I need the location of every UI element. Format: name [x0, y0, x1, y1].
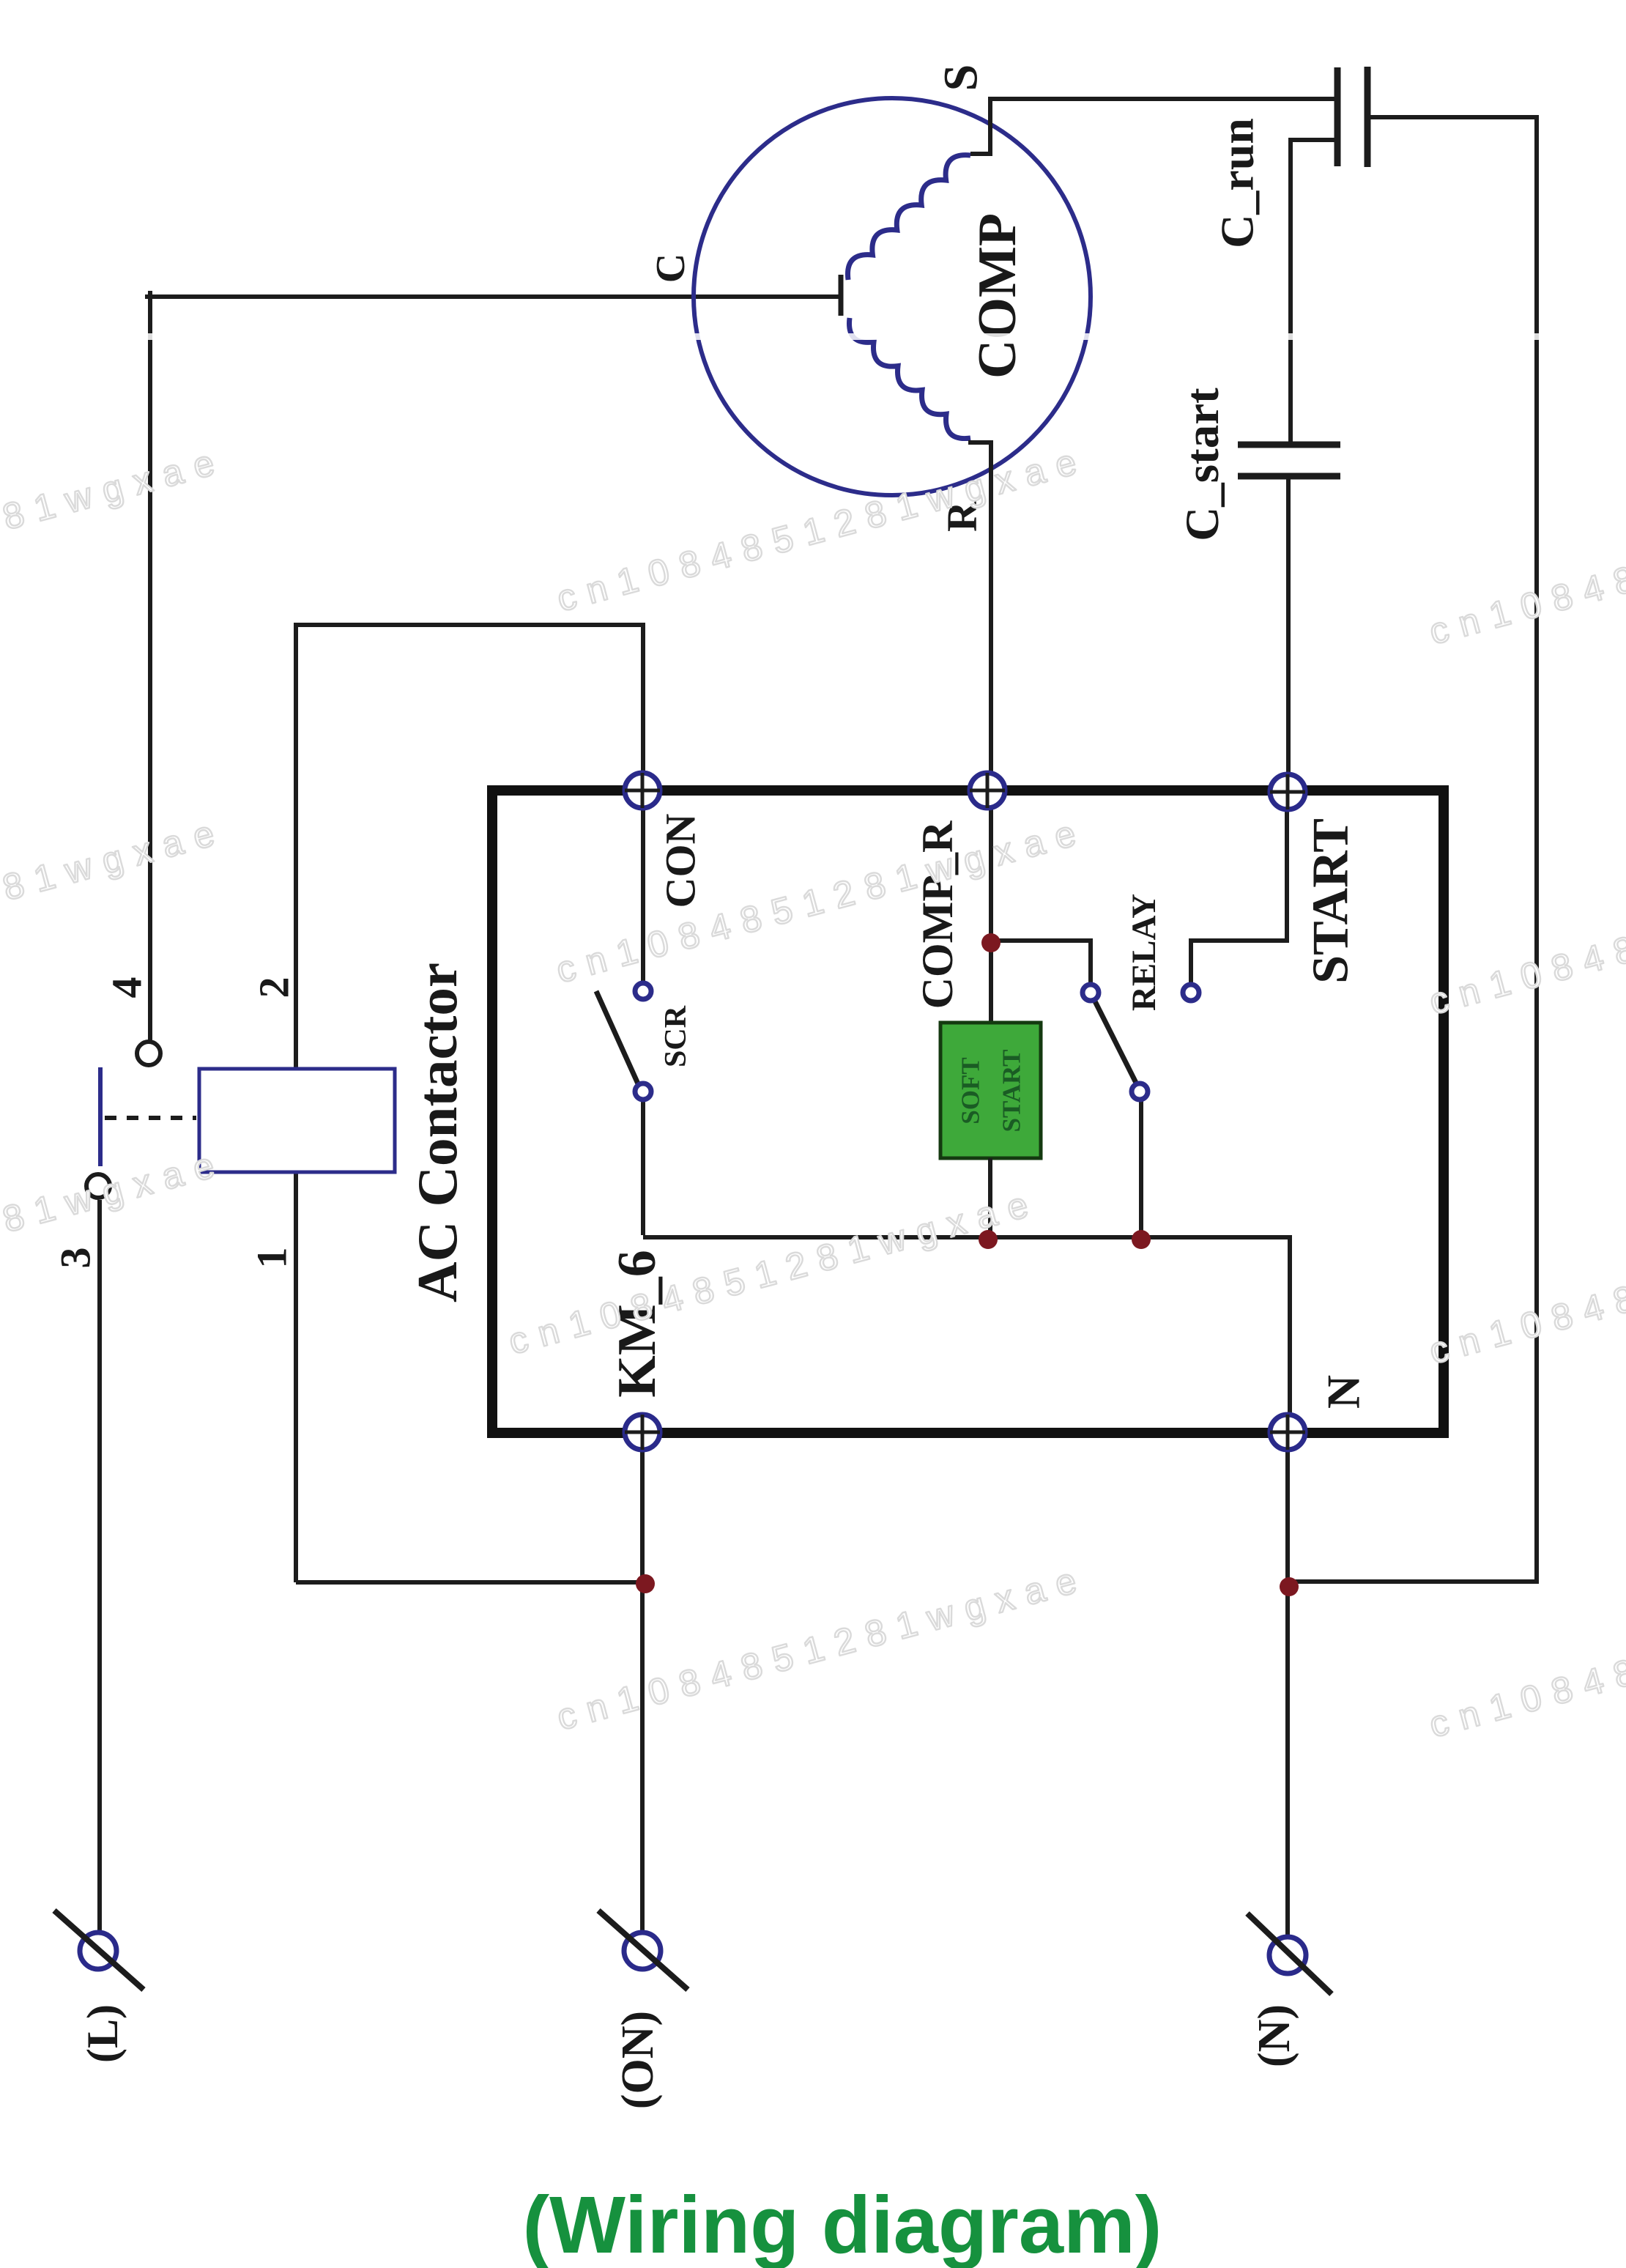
junction dot relay to bus — [1132, 1230, 1151, 1249]
svg-text:C_run: C_run — [1211, 118, 1263, 248]
scan artifact white band — [0, 333, 1626, 340]
terminal (N) circle and slash — [1247, 1913, 1332, 1994]
capacitor C_start bottom plate — [1238, 473, 1340, 480]
svg-text:START: START — [1303, 818, 1359, 984]
AC contactor coil box — [199, 1069, 395, 1172]
junction dot soft start to bus — [979, 1230, 998, 1249]
SCR lower contact — [635, 1083, 651, 1100]
wire COMP_R terminal down to soft start module — [989, 798, 993, 1023]
svg-text:C_start: C_start — [1176, 388, 1229, 541]
wire soft start module to bus — [988, 1158, 992, 1237]
wire relay lower contact to bus — [1139, 1100, 1143, 1237]
RELAY lower contact — [1132, 1083, 1148, 1100]
svg-text:1: 1 — [248, 1248, 296, 1269]
svg-text:S: S — [935, 64, 988, 92]
terminal (L) circle and slash — [54, 1911, 144, 1990]
svg-text:cn1084851281wgxae: cn1084851281wgxae — [1425, 471, 1626, 653]
branch from COMP_R node to relay left contact — [991, 941, 1091, 985]
svg-text:cn1084851281wgxae: cn1084851281wgxae — [1425, 1190, 1626, 1372]
contactor fixed contact 4 — [137, 1042, 160, 1065]
svg-text:cn1084851281wgxae: cn1084851281wgxae — [0, 809, 230, 991]
svg-text:(Wiring diagram): (Wiring diagram) — [523, 2180, 1162, 2268]
terminal ring COMP_R — [970, 773, 1005, 808]
svg-text:cn1084851281wgxae: cn1084851281wgxae — [552, 809, 1091, 991]
terminal (ON) circle and slash — [598, 1911, 688, 1990]
svg-text:(L): (L) — [78, 2004, 127, 2063]
wire CON terminal down to SCR — [641, 798, 645, 982]
wire SCR to inner bottom bus — [641, 1100, 645, 1235]
node C wire top horizontal — [145, 294, 841, 299]
RELAY switch blade — [1091, 993, 1140, 1090]
soft start module box — [940, 1023, 1041, 1158]
terminal R bracket and wire down to COMP_R — [968, 442, 991, 785]
svg-text:SOFT: SOFT — [957, 1057, 985, 1124]
svg-text:START: START — [998, 1050, 1026, 1133]
wire contact 3 down to (L) — [97, 1200, 102, 1932]
svg-text:cn1084851281wgxae: cn1084851281wgxae — [552, 438, 1091, 620]
RELAY left contact — [1083, 985, 1099, 1001]
wire C_run right plate to right rail — [1367, 117, 1537, 1582]
watermark tiles — [0, 438, 1626, 1746]
wire C_run left plate to C_start — [1291, 140, 1337, 445]
svg-text:4: 4 — [103, 977, 151, 998]
terminal ring START — [1270, 774, 1305, 809]
svg-text:cn1084851281wgxae: cn1084851281wgxae — [1425, 841, 1626, 1023]
svg-text:cn1084851281wgxae: cn1084851281wgxae — [504, 1181, 1043, 1363]
svg-text:N: N — [1318, 1375, 1370, 1409]
junction dot at COMP_R node — [981, 933, 1001, 952]
svg-text:COMP: COMP — [968, 213, 1028, 379]
svg-text:(N): (N) — [1250, 2004, 1299, 2067]
svg-text:AC Contactor: AC Contactor — [406, 963, 469, 1302]
contactor linkage dashed line — [105, 1116, 196, 1120]
wire C_start to START terminal — [1286, 476, 1291, 785]
capacitor C_start top plate — [1238, 442, 1340, 448]
soft starter box — [492, 790, 1444, 1433]
contactor moving blade — [98, 1067, 103, 1166]
wire N terminal down to (N) — [1285, 1439, 1290, 1936]
inner bottom bus and drop to N terminal — [643, 1237, 1290, 1426]
svg-text:3: 3 — [52, 1248, 100, 1269]
junction dot N line — [1280, 1577, 1299, 1596]
terminal ring KM_6 — [625, 1415, 660, 1450]
wire KM_6 terminal down to (ON) — [640, 1439, 645, 1932]
SCR switch blade — [596, 991, 640, 1089]
start winding (lower coil) — [849, 318, 970, 439]
svg-text:(ON): (ON) — [613, 2011, 663, 2109]
svg-text:cn1084851281wgxae: cn1084851281wgxae — [0, 1141, 230, 1323]
svg-text:CON: CON — [657, 813, 705, 908]
svg-text:cn1084851281wgxae: cn1084851281wgxae — [0, 439, 230, 620]
compressor motor circle COMP — [694, 98, 1091, 495]
svg-text:C: C — [648, 253, 694, 283]
RELAY right contact — [1183, 985, 1199, 1001]
contactor fixed contact 3 — [86, 1174, 110, 1198]
wire relay right contact up and over to START terminal — [1191, 798, 1287, 985]
main winding (upper coil) — [847, 155, 970, 280]
bottom right rail horizontal to N node — [1289, 1579, 1539, 1584]
svg-text:2: 2 — [250, 977, 298, 998]
svg-text:SCR: SCR — [659, 1005, 693, 1067]
SCR upper contact — [635, 983, 651, 999]
svg-text:RELAY: RELAY — [1125, 894, 1163, 1011]
wire 1 from coil bottom down and over to KM_6 line — [296, 1172, 644, 1582]
capacitor C_run left plate — [1334, 67, 1341, 166]
terminal ring N — [1270, 1415, 1305, 1450]
junction dot KM_6 line — [636, 1574, 655, 1593]
winding center tap bar — [839, 275, 844, 316]
terminal S bracket and wire to C_run — [970, 99, 1337, 154]
terminal ring CON — [625, 773, 660, 808]
wire 2 from contactor coil up and over to CON — [296, 625, 643, 1069]
svg-text:cn1084851281wgxae: cn1084851281wgxae — [1425, 1564, 1626, 1746]
wire left vertical from C corner down to contactor terminal 4 — [148, 291, 152, 1042]
capacitor C_run right plate — [1365, 67, 1371, 167]
